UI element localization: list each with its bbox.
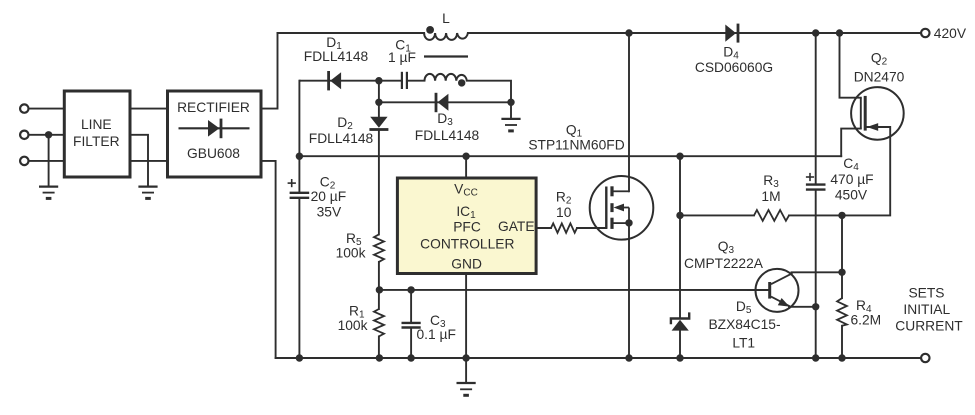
wire LF to rectifier top (130, 108, 168, 110)
wire vcc pin stub (465, 156, 467, 178)
svg-text:CURRENT: CURRENT (895, 319, 963, 334)
transistor Q1 (590, 176, 654, 240)
plus sign C2 (288, 179, 296, 187)
capacitor C1 (402, 72, 407, 89)
wire C3 bottom stub (410, 328, 412, 358)
wire D3 row (379, 101, 511, 103)
ground line filter (138, 187, 157, 199)
svg-text:450V: 450V (835, 187, 868, 202)
svg-text:20 µF: 20 µF (311, 189, 347, 204)
svg-text:R2: R2 (556, 190, 572, 207)
svg-text:GND: GND (451, 256, 482, 271)
svg-text:420V: 420V (934, 26, 967, 41)
svg-text:35V: 35V (317, 205, 342, 220)
wire base rail (379, 289, 768, 291)
output terminal 420V (921, 29, 929, 37)
junction vcc rail ic (462, 153, 469, 160)
svg-text:LT1: LT1 (732, 336, 755, 351)
svg-text:470 µF: 470 µF (830, 172, 873, 187)
junction bottom rail R1 (376, 354, 383, 361)
op-amp IC1 PFC controller box (397, 178, 536, 274)
ground secondary (501, 119, 520, 131)
svg-text:100k: 100k (336, 245, 366, 260)
svg-text:INITIAL: INITIAL (903, 302, 950, 317)
junction top rail Q2 drain (836, 29, 843, 36)
phase dot primary (426, 26, 434, 34)
plus sign C4 (806, 173, 814, 181)
input terminal 2 (20, 131, 28, 139)
svg-text:6.2M: 6.2M (851, 313, 882, 328)
junction top rail C4 (812, 29, 819, 36)
junction R3 right node (838, 212, 845, 219)
wire winding to ground corner (467, 81, 511, 119)
label line filter (73, 117, 120, 149)
wire gate row (536, 227, 551, 229)
wire Q1 source vertical (628, 223, 630, 358)
secondary winding (425, 74, 467, 81)
svg-text:PFC: PFC (453, 220, 481, 235)
ground input (39, 187, 58, 199)
svg-text:0.1 µF: 0.1 µF (417, 327, 456, 342)
junction gnd bottom rail (462, 354, 469, 361)
junction Q3 collector node (838, 269, 845, 276)
wire zener vertical top (679, 156, 681, 317)
junction emitter C4 node (812, 303, 819, 310)
wire Q2 drain (840, 33, 861, 98)
line filter box (64, 91, 130, 177)
junction vcc rail zener (676, 153, 683, 160)
svg-text:D3: D3 (437, 111, 453, 128)
svg-text:D5: D5 (736, 299, 752, 316)
svg-text:C4: C4 (843, 156, 859, 173)
svg-text:Q3: Q3 (718, 239, 735, 256)
svg-text:CMPT2222A: CMPT2222A (684, 256, 764, 271)
svg-text:R3: R3 (763, 173, 779, 190)
inductor L primary winding (424, 33, 468, 40)
diode D3 (435, 93, 449, 112)
wire zener vertical bottom (679, 331, 681, 359)
svg-text:D2: D2 (337, 115, 353, 132)
junction top rail Q1 drain (625, 29, 632, 36)
junction input neutral (45, 131, 52, 138)
input terminal 3 (20, 157, 28, 165)
svg-text:RECTIFIER: RECTIFIER (177, 100, 250, 115)
wire LF to rectifier bottom (130, 160, 168, 162)
junction D1-C1-D2 node (375, 77, 382, 84)
wire C1 to coupled winding (408, 80, 425, 82)
wire C4 vertical bottom (815, 190, 817, 358)
svg-text:L: L (442, 11, 450, 26)
wire input top row (29, 108, 65, 110)
svg-text:1 µF: 1 µF (388, 50, 416, 65)
wire Q3 collector row (792, 271, 843, 273)
wire R4 vertical (841, 215, 843, 298)
capacitor C4 (806, 185, 826, 190)
ground ic (457, 383, 476, 395)
wire D2 vertical chain (378, 81, 380, 117)
zener diode D5 (671, 312, 689, 330)
svg-text:FILTER: FILTER (73, 134, 120, 149)
transformer core bar (424, 55, 468, 57)
junction base rail C3 (407, 286, 414, 293)
wire input bottom row (29, 160, 65, 162)
svg-text:FDLL4148: FDLL4148 (309, 131, 374, 146)
resistor R3 (754, 210, 789, 221)
capacitor C2 (290, 193, 310, 198)
resistor R1 (374, 309, 384, 336)
junction bottom rail C2 (296, 354, 303, 361)
wire top rail right (468, 32, 921, 34)
svg-text:1M: 1M (761, 189, 780, 204)
wire vcc rail (299, 155, 841, 157)
svg-text:LINE: LINE (81, 117, 112, 132)
junction R3 left node (676, 212, 683, 219)
phase dot secondary (458, 79, 465, 86)
diode D1 (327, 71, 341, 90)
wire D1 node horizontal (300, 80, 401, 82)
svg-text:Q2: Q2 (871, 51, 888, 68)
wire ic ground drop (465, 358, 467, 383)
transistor Q3 (756, 269, 799, 312)
rectifier internal diode (179, 119, 250, 139)
wire bottom rail (276, 357, 922, 359)
svg-text:GBU608: GBU608 (187, 146, 240, 161)
capacitor C3 (402, 323, 421, 328)
junction base rail R5 (376, 286, 383, 293)
wire gnd pin stub (465, 273, 467, 358)
svg-text:CONTROLLER: CONTROLLER (420, 236, 514, 251)
rectifier box (168, 91, 262, 177)
wire middle-row ground drop (48, 135, 50, 187)
svg-text:FDLL4148: FDLL4148 (304, 49, 369, 64)
junction vcc rail left (296, 153, 303, 160)
svg-text:10: 10 (556, 205, 572, 220)
diode D4 (725, 24, 739, 43)
wire C4 vertical top (815, 33, 817, 185)
wire Q2 gate lead (841, 129, 861, 157)
wire top rail left (278, 32, 425, 34)
transistor Q2 (851, 87, 904, 140)
wire LF middle-right ground drop (130, 135, 148, 187)
junction bottom rail R4 (838, 354, 845, 361)
svg-text:CSD06060G: CSD06060G (695, 60, 773, 75)
svg-text:DN2470: DN2470 (854, 70, 905, 85)
input terminal 1 (20, 104, 28, 112)
resistor R4 (837, 298, 847, 326)
resistor R2 (551, 223, 577, 232)
wire Q3 emitter row (789, 306, 816, 308)
diode D2 (369, 117, 388, 131)
wire input middle row (29, 134, 65, 136)
junction secondary ground node (507, 99, 514, 106)
svg-text:SETS: SETS (908, 286, 944, 301)
junction bottom rail C4 (812, 354, 819, 361)
wire R3 row (680, 214, 754, 216)
svg-text:BZX84C15-: BZX84C15- (708, 317, 780, 332)
wire Q2 source to R3 node (842, 127, 890, 215)
resistor R5 (374, 234, 384, 262)
svg-text:STP11NM60FD: STP11NM60FD (528, 137, 624, 152)
wire rectifier minus output to bottom rail (261, 161, 276, 358)
wire Q1 drain vertical (628, 33, 630, 191)
junction bottom rail Q1 source (625, 354, 632, 361)
output terminal bottom (921, 354, 929, 362)
label sets initial current (895, 286, 963, 334)
svg-text:FDLL4148: FDLL4148 (415, 128, 480, 143)
wire C2 bottom drop (298, 198, 300, 358)
svg-text:GATE: GATE (498, 219, 535, 234)
junction D3 branch node (375, 99, 382, 106)
junction bottom rail C3 (407, 354, 414, 361)
junction bottom rail D5 (676, 354, 683, 361)
wire C3 top stub (410, 290, 412, 323)
wire rectifier plus output to top rail (261, 33, 278, 109)
wire D1 branch left drop (298, 81, 300, 193)
svg-text:100k: 100k (338, 318, 368, 333)
